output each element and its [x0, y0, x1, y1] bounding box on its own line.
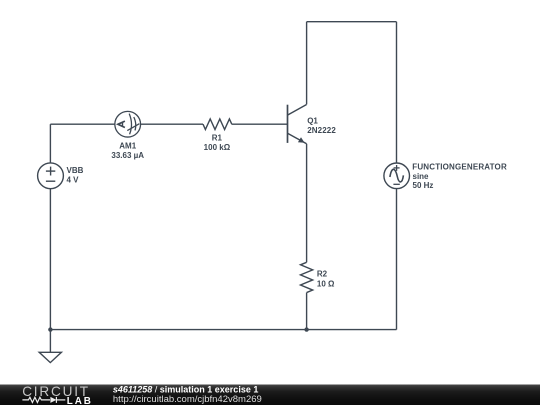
- wire R2 to bottom rail: [306, 293, 308, 330]
- function generator V1: [384, 163, 410, 189]
- wire right rail lower: [396, 189, 398, 330]
- resistor R2: [301, 262, 313, 292]
- wire right rail upper: [396, 22, 398, 163]
- svg-text:R2: R2: [317, 269, 328, 278]
- wire bottom rail: [50, 329, 396, 331]
- resistor R1: [203, 119, 232, 130]
- svg-text:AM1: AM1: [119, 141, 136, 150]
- wire R1 to Q1 base: [232, 123, 288, 125]
- svg-text:33.63 µA: 33.63 µA: [111, 151, 144, 160]
- wire VBB to ammeter: [50, 123, 115, 125]
- svg-text:Q1: Q1: [307, 117, 318, 126]
- wire ammeter to R1: [141, 123, 203, 125]
- transistor Q1: [288, 105, 307, 144]
- svg-text:LAB: LAB: [67, 396, 93, 405]
- node junction at R2 bottom rail: [304, 327, 308, 331]
- voltage source VBB: [38, 163, 64, 189]
- svg-text:2N2222: 2N2222: [307, 126, 336, 135]
- svg-text:4 V: 4 V: [67, 176, 80, 185]
- svg-text:FUNCTIONGENERATOR: FUNCTIONGENERATOR: [412, 163, 507, 172]
- svg-text:sine: sine: [413, 172, 430, 181]
- wire top rail: [307, 21, 397, 23]
- wire Q1 emitter down to R2: [306, 144, 308, 262]
- svg-text:50 Hz: 50 Hz: [413, 181, 434, 190]
- svg-text:http://circuitlab.com/cjbfn42v: http://circuitlab.com/cjbfn42v8m269: [113, 394, 262, 405]
- ground: [39, 330, 61, 363]
- wire Q1 collector up: [306, 22, 308, 105]
- svg-text:100 kΩ: 100 kΩ: [204, 143, 231, 152]
- wire VBB top vertical: [49, 124, 51, 163]
- wire VBB bottom vertical: [49, 189, 51, 330]
- svg-text:R1: R1: [212, 134, 223, 143]
- footer bar: [0, 385, 540, 405]
- svg-text:10 Ω: 10 Ω: [317, 280, 335, 289]
- svg-text:VBB: VBB: [67, 166, 84, 175]
- node junction at VBB bottom rail: [48, 327, 52, 331]
- ammeter AM1: [115, 111, 141, 137]
- CircuitLab logo squiggle resistor diode: [22, 397, 65, 403]
